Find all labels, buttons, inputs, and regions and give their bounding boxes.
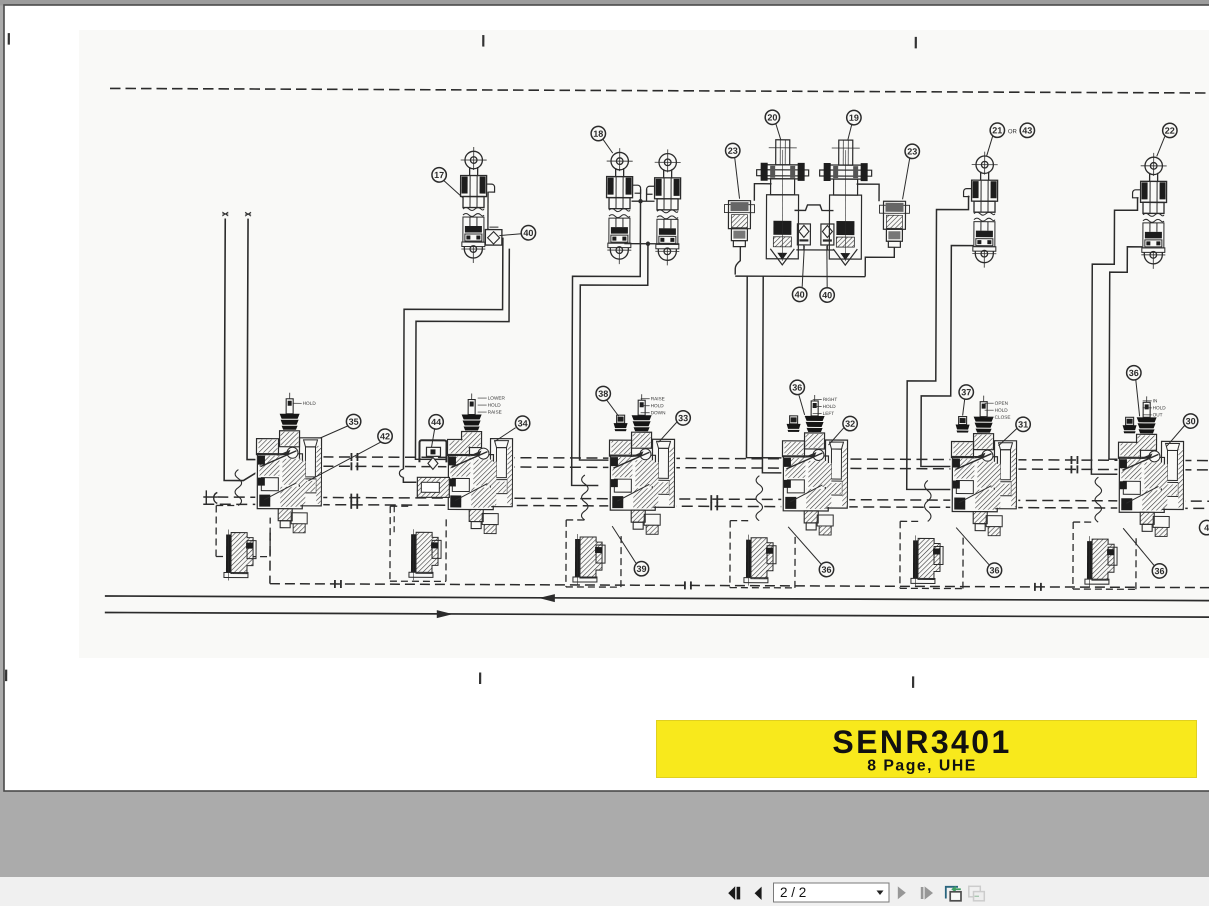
svg-text:2 / 2: 2 / 2 bbox=[780, 885, 806, 900]
label circle 42 bbox=[378, 429, 392, 443]
valve 33 secondary stem bbox=[617, 415, 625, 423]
last page button (disabled) bbox=[921, 887, 924, 899]
svg-text:36: 36 bbox=[792, 383, 802, 393]
valve 30 secondary stem bbox=[1126, 417, 1134, 425]
svg-text:19: 19 bbox=[849, 113, 859, 123]
svg-text:RIGHT: RIGHT bbox=[823, 397, 838, 402]
svg-text:RAISE: RAISE bbox=[651, 396, 665, 401]
valve 31 secondary stem bbox=[959, 417, 967, 425]
svg-text:40: 40 bbox=[822, 290, 832, 300]
wire: ram cross pipe mid bbox=[796, 245, 834, 250]
label circle 33 bbox=[676, 411, 690, 425]
wire: pair18 top ports join bbox=[632, 189, 655, 201]
wire: cyl17 port to check valve bbox=[487, 192, 489, 230]
svg-text:36: 36 bbox=[989, 565, 999, 575]
svg-text:33: 33 bbox=[678, 413, 688, 423]
dashed hydraulic bus row A1 bbox=[256, 457, 1209, 461]
svg-text:OUT: OUT bbox=[1153, 412, 1163, 417]
dashed box v31 bbox=[900, 521, 963, 588]
registration tick top-left bbox=[8, 33, 10, 45]
svg-text:37: 37 bbox=[961, 387, 971, 397]
label circle 40 bbox=[820, 288, 834, 302]
spool extension left of 34 bbox=[417, 477, 449, 497]
cylinder 22 bbox=[1140, 153, 1166, 214]
wire: left supply line B bbox=[247, 219, 257, 460]
dashed hydraulic bus row A2 bbox=[256, 466, 1209, 470]
valve 34 control stem bbox=[468, 400, 475, 415]
svg-text:43: 43 bbox=[1022, 126, 1032, 136]
svg-text:DOWN: DOWN bbox=[651, 410, 666, 415]
svg-text:CLOSE: CLOSE bbox=[995, 415, 1011, 420]
dashed box v33 bbox=[566, 520, 621, 587]
valve 33 control stem bbox=[638, 400, 645, 415]
registration tick bottom-center bbox=[479, 673, 481, 685]
filter 23 right bbox=[879, 201, 909, 247]
wire: pair18 bottom ports join bbox=[624, 243, 679, 245]
dashed box v34 bbox=[390, 506, 446, 581]
label circle 23 bbox=[726, 143, 740, 157]
label circle 19 bbox=[847, 110, 861, 124]
label circle 4 bbox=[1199, 520, 1209, 534]
valve 32 valve body bbox=[781, 432, 849, 535]
svg-text:HOLD: HOLD bbox=[823, 404, 837, 409]
registration tick top-right bbox=[915, 37, 917, 49]
svg-text:30: 30 bbox=[1186, 416, 1196, 426]
return line upper with left arrow bbox=[105, 596, 1209, 601]
prev page button bbox=[755, 887, 762, 900]
next view icon (disabled) bbox=[969, 886, 985, 901]
label circle 22 bbox=[1163, 123, 1177, 137]
label circle 36 bbox=[790, 380, 804, 394]
label circle 17 bbox=[432, 168, 446, 182]
svg-text:20: 20 bbox=[767, 112, 777, 122]
svg-text:LEFT: LEFT bbox=[823, 411, 835, 416]
svg-text:HOLD: HOLD bbox=[995, 408, 1009, 413]
wire: cyl17 to valve34 line A bbox=[403, 237, 503, 482]
label circle 18 bbox=[591, 126, 605, 140]
svg-text:OR: OR bbox=[1008, 129, 1018, 135]
svg-text:34: 34 bbox=[518, 418, 528, 428]
page number dropdown bbox=[774, 883, 890, 902]
wire: ram manifold frame left bbox=[754, 184, 771, 201]
label circle 36 bbox=[819, 562, 833, 576]
svg-text:36: 36 bbox=[1129, 368, 1139, 378]
wire: pair18 to valve33 line A bbox=[572, 201, 641, 486]
label circle 31 bbox=[1016, 417, 1030, 431]
wire: left supply line A bbox=[224, 218, 257, 480]
label circle 40 bbox=[792, 287, 806, 301]
valve 35 valve body bbox=[255, 430, 323, 533]
dashed hydraulic bus row C1 bbox=[217, 497, 1209, 501]
check valve 40a bbox=[485, 230, 502, 246]
wire: ram pair to valve32 line B bbox=[746, 276, 783, 458]
valve 34 valve body bbox=[446, 430, 514, 533]
wire: cyl22 to valve30 line A bbox=[1091, 197, 1137, 474]
svg-text:44: 44 bbox=[431, 417, 441, 427]
svg-text:23: 23 bbox=[728, 146, 738, 156]
next page button (disabled) bbox=[898, 886, 906, 899]
wire: pair18 to valve33 line B bbox=[580, 243, 648, 460]
label circle 35 bbox=[346, 414, 360, 428]
label circle 21 bbox=[990, 123, 1004, 137]
label circle 43 bbox=[1020, 123, 1034, 137]
svg-text:40: 40 bbox=[795, 290, 805, 300]
valve 32 secondary stem bbox=[790, 416, 798, 424]
wire: cyl21 to valve31 line B bbox=[921, 245, 973, 466]
svg-text:17: 17 bbox=[434, 170, 444, 180]
yellow watermark banner bbox=[657, 721, 1197, 778]
bus couplers bbox=[351, 453, 357, 461]
svg-text:8 Page, UHE: 8 Page, UHE bbox=[867, 758, 977, 775]
svg-text:36: 36 bbox=[1154, 566, 1164, 576]
valve 30 valve body bbox=[1117, 433, 1185, 536]
valve 31 control stem bbox=[980, 402, 987, 417]
svg-text:HOLD: HOLD bbox=[1153, 405, 1167, 410]
dashed hydraulic bus row C2 bbox=[203, 504, 1209, 508]
label circle 39 bbox=[634, 562, 648, 576]
svg-text:OPEN: OPEN bbox=[995, 401, 1008, 406]
label circle 36 bbox=[987, 563, 1001, 577]
label circle 37 bbox=[959, 385, 973, 399]
pipe break marks bbox=[222, 212, 228, 216]
ram 20 bbox=[756, 140, 808, 259]
pilot valve 44 loop bbox=[419, 440, 446, 462]
dashed box v35 bbox=[216, 505, 270, 556]
svg-text:HOLD: HOLD bbox=[651, 403, 665, 408]
svg-text:RAISE: RAISE bbox=[488, 410, 502, 415]
toolbar bbox=[0, 877, 1209, 906]
label circle 36 bbox=[1127, 366, 1141, 380]
svg-text:LOWER: LOWER bbox=[488, 396, 506, 401]
valve 30 control stem bbox=[1143, 402, 1150, 417]
left end fitting on row C bbox=[203, 490, 217, 504]
label circle 36 bbox=[1152, 564, 1166, 578]
svg-text:32: 32 bbox=[845, 419, 855, 429]
cylinder 18 left bbox=[606, 148, 632, 209]
svg-text:4: 4 bbox=[1204, 523, 1209, 533]
svg-text:42: 42 bbox=[380, 431, 390, 441]
first page button bbox=[728, 886, 735, 900]
svg-text:HOLD: HOLD bbox=[488, 403, 502, 408]
svg-text:23: 23 bbox=[907, 147, 917, 157]
label circle 40 bbox=[521, 226, 535, 240]
svg-text:31: 31 bbox=[1018, 420, 1028, 430]
cylinder 17 bbox=[461, 147, 487, 208]
wire: ram cross pipe upper bbox=[794, 205, 833, 211]
valve 31 valve body bbox=[950, 433, 1018, 536]
wire: cyl22 to valve30 line B bbox=[1109, 247, 1142, 460]
registration tick top-center bbox=[482, 35, 484, 47]
top dashed boundary line bbox=[110, 88, 1209, 93]
wire: cyl17 to valve34 line B bbox=[415, 248, 509, 459]
label circle 44 bbox=[429, 415, 443, 429]
previous view icon bbox=[946, 886, 961, 901]
wire: ram lower frame bbox=[735, 247, 894, 277]
scanned paper tint bbox=[79, 30, 1209, 658]
svg-text:IN: IN bbox=[1153, 398, 1158, 403]
svg-text:22: 22 bbox=[1165, 126, 1175, 136]
cylinder 18 right bbox=[654, 149, 680, 210]
valve 32 control stem bbox=[811, 401, 818, 416]
svg-text:21: 21 bbox=[992, 125, 1002, 135]
label circle 30 bbox=[1183, 414, 1197, 428]
svg-text:HOLD: HOLD bbox=[303, 401, 317, 406]
wire: ram pair to valve32 line A bbox=[762, 276, 783, 473]
svg-text:40: 40 bbox=[523, 228, 533, 238]
check valve 40b bbox=[797, 224, 810, 245]
label circle 32 bbox=[843, 416, 857, 430]
svg-text:SENR3401: SENR3401 bbox=[832, 724, 1011, 760]
wire: ram manifold frame right bbox=[857, 184, 880, 201]
svg-text:39: 39 bbox=[636, 564, 646, 574]
valve 33 valve body bbox=[608, 431, 676, 534]
cylinder 21 bbox=[971, 152, 997, 213]
label circle 38 bbox=[596, 386, 610, 400]
dashed box v32 bbox=[730, 521, 795, 588]
label circle 34 bbox=[515, 416, 529, 430]
wire: cyl21 to valve31 line A bbox=[907, 195, 969, 489]
registration tick bottom-right bbox=[912, 676, 914, 688]
check valve 40c bbox=[821, 224, 834, 245]
label circle 20 bbox=[765, 110, 779, 124]
dashed box v30 bbox=[1073, 522, 1136, 589]
valve 35 control stem bbox=[286, 399, 293, 414]
ram 19 bbox=[819, 140, 871, 259]
bottom dashed bus bbox=[270, 531, 1209, 588]
return line lower with right arrow bbox=[105, 612, 1209, 617]
svg-text:38: 38 bbox=[598, 389, 608, 399]
svg-text:36: 36 bbox=[821, 565, 831, 575]
svg-text:18: 18 bbox=[593, 129, 603, 139]
svg-text:35: 35 bbox=[349, 417, 359, 427]
filter 23 left bbox=[724, 201, 754, 247]
label circle 23 bbox=[905, 144, 919, 158]
registration tick bottom-left bbox=[5, 670, 7, 682]
